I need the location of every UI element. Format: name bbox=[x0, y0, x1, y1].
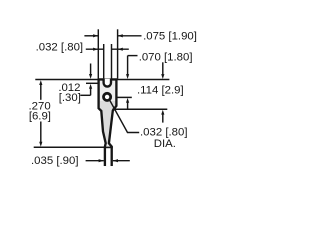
svg-text:.114 [2.9]: .114 [2.9] bbox=[137, 85, 184, 97]
svg-text:[.30]: [.30] bbox=[59, 92, 81, 104]
svg-text:[6.9]: [6.9] bbox=[29, 111, 51, 123]
svg-text:.075 [1.90]: .075 [1.90] bbox=[143, 30, 197, 42]
svg-text:.032 [.80]: .032 [.80] bbox=[36, 41, 84, 53]
svg-text:.070 [1.80]: .070 [1.80] bbox=[139, 52, 193, 64]
svg-text:.032 [.80]: .032 [.80] bbox=[140, 127, 188, 139]
svg-text:.035 [.90]: .035 [.90] bbox=[31, 155, 79, 167]
svg-text:DIA.: DIA. bbox=[154, 138, 176, 150]
